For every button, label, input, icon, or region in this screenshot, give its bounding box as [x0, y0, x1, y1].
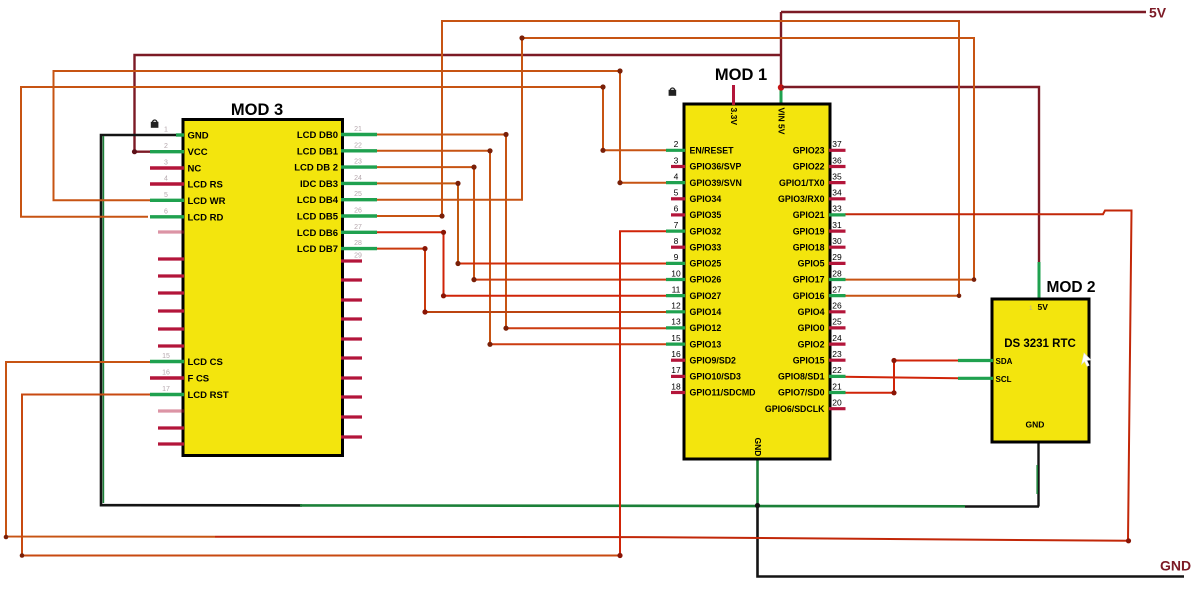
svg-text:GPIO27: GPIO27 [690, 291, 722, 301]
wire IDC DB3 to GPIO25 upper [377, 183, 458, 263]
junction GND bus at MOD1 [755, 503, 760, 508]
MOD3 pin 21 LCD DB0 stub [341, 133, 377, 136]
svg-text:MOD 1: MOD 1 [715, 66, 767, 84]
bend DB1 top [487, 148, 492, 153]
svg-text:GND: GND [1160, 558, 1191, 574]
svg-text:GPIO21: GPIO21 [793, 210, 825, 220]
MOD1 pin 17 GPIO10/SD3 stub [671, 375, 685, 378]
svg-text:26: 26 [354, 208, 362, 215]
wire GND MOD1 green drop [756, 459, 759, 506]
MOD3 pin 29 stub [341, 259, 362, 262]
svg-text:GPIO32: GPIO32 [690, 226, 722, 236]
svg-text:25: 25 [354, 191, 362, 198]
wire GND MOD3 green parallel [102, 136, 104, 503]
wire 5V green tail at VIN 5V pin [780, 87, 783, 105]
MOD1 pin 27 GPIO16 stub [829, 294, 846, 297]
MOD1 pin 2 EN/RESET stub [666, 149, 685, 152]
bend VCC corner [132, 149, 137, 154]
svg-text:37: 37 [832, 139, 842, 149]
MOD1 pin 37 GPIO23 stub [829, 149, 846, 152]
svg-text:22: 22 [832, 365, 842, 375]
MOD1 pin 30 GPIO18 stub [829, 246, 846, 249]
svg-text:1: 1 [1029, 305, 1033, 312]
MOD1 pin 3 GPIO36/SVP stub [671, 165, 685, 168]
svg-text:LCD DB 2: LCD DB 2 [294, 163, 338, 174]
MOD3 unlabeled left stub 2 [158, 257, 184, 260]
svg-text:23: 23 [832, 349, 842, 359]
bend WR corner [617, 68, 622, 73]
svg-text:6: 6 [674, 204, 679, 214]
MOD1 pin 31 GPIO19 stub [829, 230, 846, 233]
svg-text:GPIO12: GPIO12 [690, 323, 722, 333]
svg-text:21: 21 [832, 381, 842, 391]
MOD1 pin 5 GPIO34 stub [671, 197, 685, 200]
MOD1 pin 26 GPIO4 stub [829, 310, 846, 313]
svg-text:GPIO11/SDCMD: GPIO11/SDCMD [690, 388, 756, 398]
svg-text:18: 18 [671, 381, 681, 391]
svg-text:29: 29 [354, 253, 362, 260]
MOD3 pin 24 IDC DB3 stub [341, 182, 377, 185]
MOD1 pin 35 GPIO1/TX0 stub [829, 181, 846, 184]
MOD1 pin 6 GPIO35 stub [671, 213, 685, 216]
svg-text:DS 3231 RTC: DS 3231 RTC [1004, 338, 1076, 350]
MOD1 pin 12 GPIO14 stub [666, 310, 685, 313]
svg-text:24: 24 [354, 175, 362, 182]
wire LCD DB4 to GPIO17 [377, 38, 974, 280]
svg-text:6: 6 [164, 208, 168, 215]
svg-text:GPIO23: GPIO23 [793, 146, 825, 156]
MOD1 pin 4 GPIO39/SVN stub [666, 181, 685, 184]
wire LCD RD to EN/RESET [21, 87, 666, 217]
svg-text:11: 11 [672, 284, 681, 294]
svg-text:GPIO2: GPIO2 [798, 339, 825, 349]
svg-text:10: 10 [671, 268, 681, 278]
svg-text:MOD 3: MOD 3 [231, 101, 283, 119]
MOD1 pin 13 GPIO12 stub [666, 326, 685, 329]
MOD1 pin 34 GPIO3/RX0 stub [829, 197, 846, 200]
MOD1 pin 10 GPIO26 stub [666, 278, 685, 281]
svg-text:9: 9 [674, 252, 679, 262]
svg-text:5V: 5V [1149, 5, 1167, 21]
MOD3 pin 1 GND stub [176, 133, 184, 136]
svg-text:LCD DB0: LCD DB0 [297, 130, 338, 141]
svg-text:26: 26 [832, 301, 842, 311]
MOD3 pin 3 NC stub [150, 166, 184, 169]
svg-text:GPIO18: GPIO18 [793, 242, 825, 252]
svg-text:GPIO17: GPIO17 [793, 275, 825, 285]
MOD1 pin 15 GPIO13 stub [666, 343, 685, 346]
MOD3 pin 15 LCD CS stub [150, 360, 184, 363]
svg-text:GPIO13: GPIO13 [690, 339, 722, 349]
bend CS corner bottom right [1126, 538, 1131, 543]
wire GND black segment to MOD2 [965, 505, 1039, 507]
bend DB5 right corner [957, 294, 962, 299]
svg-text:25: 25 [832, 317, 842, 327]
svg-text:15: 15 [162, 353, 170, 360]
MOD3 unlabeled right stub 1 [341, 278, 362, 281]
svg-text:GPIO8/SD1: GPIO8/SD1 [778, 372, 825, 382]
wire LCD DB2 to GPIO26 upper [377, 167, 474, 280]
bend DB7 top [422, 246, 427, 251]
bend CS corner bottom left [4, 535, 9, 540]
svg-text:GPIO16: GPIO16 [793, 291, 825, 301]
MOD1 pin 8 GPIO33 stub [671, 246, 685, 249]
wire LCD DB5 to GPIO16 [377, 21, 959, 296]
bend DB4 corner [519, 35, 524, 40]
wire 5V branch to MOD 2 [782, 87, 1039, 263]
svg-text:GPIO22: GPIO22 [793, 162, 825, 172]
MOD3 unlabeled right stub 4 [341, 337, 362, 340]
bend DB2 bottom [471, 277, 476, 282]
MOD3 unlabeled left stub 6 [158, 327, 184, 330]
svg-text:GPIO39/SVN: GPIO39/SVN [690, 178, 742, 188]
wire LCD DB6 to GPIO27 [377, 232, 666, 295]
svg-text:GPIO15: GPIO15 [793, 355, 825, 365]
bend DB0 bottom [503, 326, 508, 331]
MOD3 pin 22 LCD DB1 stub [341, 149, 377, 152]
svg-text:3: 3 [674, 155, 679, 165]
junction VIN 5V [778, 84, 784, 90]
MOD1 pin 16 GPIO9/SD2 stub [671, 359, 685, 362]
MOD1 pin 7 GPIO32 stub [666, 230, 685, 233]
svg-text:GPIO6/SDCLK: GPIO6/SDCLK [765, 404, 825, 414]
MOD3 pin 26 LCD DB5 stub [341, 214, 377, 217]
wire LCD WR to GPIO39/SVN [54, 71, 667, 200]
svg-text:LCD RST: LCD RST [188, 390, 229, 401]
MOD1 3.3V pin stub [732, 85, 735, 105]
svg-text:28: 28 [832, 268, 842, 278]
MOD3 unlabeled right stub 6 [341, 376, 362, 379]
svg-text:1: 1 [164, 127, 168, 134]
svg-text:GPIO19: GPIO19 [793, 226, 825, 236]
MOD3 pin 25 LCD DB4 stub [341, 198, 377, 201]
svg-text:GPIO3/RX0: GPIO3/RX0 [778, 194, 825, 204]
svg-text:35: 35 [832, 171, 842, 181]
MOD3 unlabeled right stub 8 [341, 415, 362, 418]
MOD3 unlabeled right stub 3 [341, 317, 362, 320]
svg-text:8: 8 [674, 236, 679, 246]
MOD3 pin 16 F CS stub [150, 376, 184, 379]
bend DB2 top [471, 165, 476, 170]
wire LCD DB1 to GPIO13 upper [377, 151, 490, 344]
MOD1 pin 20 GPIO6/SDCLK stub [829, 407, 846, 410]
svg-text:7: 7 [674, 220, 679, 230]
bend DB0 top [503, 132, 508, 137]
svg-text:3: 3 [164, 160, 168, 167]
svg-text:GPIO35: GPIO35 [690, 210, 722, 220]
svg-text:4: 4 [164, 176, 168, 183]
wire LCD DB7 to GPIO14 upper [377, 249, 425, 312]
svg-text:28: 28 [354, 240, 362, 247]
svg-text:LCD DB4: LCD DB4 [297, 195, 339, 206]
MOD2 SDA pin stub [958, 359, 993, 362]
MOD1 pin 25 GPIO0 stub [829, 326, 846, 329]
svg-text:23: 23 [354, 159, 362, 166]
svg-text:LCD CS: LCD CS [188, 357, 223, 368]
svg-text:F CS: F CS [188, 374, 210, 385]
svg-text:16: 16 [671, 349, 681, 359]
wire LCD RST to GPIO32 right part [620, 231, 666, 555]
wire 5V rail to label [781, 11, 1146, 13]
svg-text:29: 29 [832, 252, 842, 262]
bend SDA top [891, 358, 896, 363]
svg-text:GPIO7/SD0: GPIO7/SD0 [778, 388, 825, 398]
MOD1 pin 11 GPIO27 stub [666, 294, 685, 297]
wire 5V branch to MOD3 VCC [135, 55, 781, 152]
MOD1 pin 22 GPIO8/SD1 stub [829, 375, 846, 378]
MOD3 unlabeled left stub 4 [158, 291, 184, 294]
svg-text:2: 2 [164, 143, 168, 150]
MOD3 unlabeled left stub 10 [158, 442, 184, 445]
wire LCD CS left part [6, 362, 215, 537]
svg-text:16: 16 [162, 370, 170, 377]
svg-text:34: 34 [832, 188, 842, 198]
MOD3 pin 28 LCD DB7 stub [341, 247, 377, 250]
module MOD2 DS3231 RTC box [992, 299, 1089, 442]
svg-text:VCC: VCC [188, 147, 208, 158]
svg-text:MOD 2: MOD 2 [1046, 279, 1095, 296]
svg-text:GPIO5: GPIO5 [798, 259, 825, 269]
wire 5V vertical drop to MOD1 VIN [780, 12, 782, 88]
svg-text:GPIO1/TX0: GPIO1/TX0 [779, 178, 825, 188]
wire GND MOD3 black [101, 135, 302, 505]
wire GND MOD2 green overlay [1036, 465, 1038, 494]
svg-text:LCD DB6: LCD DB6 [297, 228, 338, 239]
bend DB5 junction [439, 213, 444, 218]
svg-text:GPIO10/SD3: GPIO10/SD3 [690, 372, 741, 382]
svg-text:LCD DB7: LCD DB7 [297, 244, 338, 255]
svg-text:LCD DB1: LCD DB1 [297, 146, 339, 157]
svg-text:20: 20 [832, 398, 842, 408]
MOD3 unlabeled left stub 3 [158, 274, 184, 277]
svg-text:33: 33 [832, 204, 842, 214]
svg-text:LCD RS: LCD RS [188, 180, 223, 191]
svg-text:5: 5 [164, 192, 168, 199]
wire LCD DB2 to GPIO26 lower [474, 279, 666, 281]
module MOD1 ESP32 box [684, 104, 830, 459]
MOD2 SCL pin stub [958, 377, 993, 380]
wire GND MOD1 to GND label [758, 506, 1185, 577]
wire LCD CS to GPIO21 right part [215, 211, 1132, 541]
bend SDA bottom [891, 390, 896, 395]
bend DB1 bottom [487, 342, 492, 347]
svg-text:GPIO26: GPIO26 [690, 275, 722, 285]
MOD3 pin 2 VCC stub [150, 150, 184, 153]
svg-text:GPIO9/SD2: GPIO9/SD2 [690, 355, 737, 365]
svg-text:GPIO4: GPIO4 [798, 307, 825, 317]
svg-text:NC: NC [188, 164, 202, 175]
bend DB7 bottom [422, 309, 427, 314]
wire SDA to GPIO7/SD0 [845, 361, 958, 393]
svg-text:2: 2 [674, 139, 679, 149]
svg-text:17: 17 [671, 365, 681, 375]
MOD3 unlabeled left stub 8 [158, 409, 184, 412]
module MOD3 LCD box [183, 120, 343, 456]
MOD3 unlabeled left stub 5 [158, 309, 184, 312]
MOD3 unlabeled right stub 2 [341, 298, 362, 301]
svg-text:VIN 5V: VIN 5V [777, 108, 787, 135]
MOD1 pin 24 GPIO2 stub [829, 343, 846, 346]
bend DB3 top [455, 181, 460, 186]
bend DB3 bottom [455, 261, 460, 266]
bend RD corner [600, 84, 605, 89]
wire GND long green bus [300, 504, 965, 507]
MOD1 pin 18 GPIO11/SDCMD stub [671, 391, 685, 394]
MOD3 pin 6 LCD RD stub [150, 215, 184, 218]
svg-text:24: 24 [832, 333, 842, 343]
svg-text:GPIO0: GPIO0 [798, 323, 825, 333]
svg-text:GND: GND [188, 131, 209, 142]
svg-text:GPIO36/SVP: GPIO36/SVP [690, 162, 742, 172]
bend DB6 bottom [441, 293, 446, 298]
MOD1 pin 28 GPIO17 stub [829, 278, 846, 281]
svg-text:LCD RD: LCD RD [188, 212, 224, 223]
svg-text:GPIO34: GPIO34 [690, 194, 722, 204]
MOD3 unlabeled left stub 7 [158, 344, 184, 347]
svg-text:27: 27 [354, 224, 362, 231]
svg-text:36: 36 [832, 155, 842, 165]
MOD1 pin 23 GPIO15 stub [829, 359, 846, 362]
wire LCD DB1 to GPIO13 lower [490, 343, 666, 345]
MOD1 pin 33 GPIO21 stub [829, 213, 846, 216]
svg-text:LCD DB5: LCD DB5 [297, 212, 339, 223]
bend DB6 top [441, 230, 446, 235]
svg-text:4: 4 [674, 171, 679, 181]
MOD3 pin 23 LCD DB 2 stub [341, 165, 377, 168]
bend WR bottom [617, 180, 622, 185]
svg-text:13: 13 [671, 317, 681, 327]
MOD1 pin 29 GPIO5 stub [829, 262, 846, 265]
MOD1 pin 36 GPIO22 stub [829, 165, 846, 168]
lock icon MOD1 [669, 88, 676, 95]
bend RD bottom [600, 148, 605, 153]
MOD3 pin 27 LCD DB6 stub [341, 231, 377, 234]
svg-text:22: 22 [354, 142, 362, 149]
svg-text:21: 21 [354, 126, 362, 133]
MOD3 pin 4 LCD RS stub [150, 182, 184, 185]
svg-text:5V: 5V [1038, 302, 1049, 312]
svg-text:30: 30 [832, 236, 842, 246]
wire LCD DB0 to GPIO12 upper [377, 135, 506, 329]
svg-text:SCL: SCL [996, 375, 1012, 384]
bend DB4 right corner [972, 277, 977, 282]
svg-text:EN/RESET: EN/RESET [690, 146, 735, 156]
svg-text:GND: GND [1026, 420, 1045, 430]
MOD3 pin 17 LCD RST stub [150, 393, 184, 396]
svg-text:12: 12 [671, 301, 681, 311]
svg-text:5: 5 [674, 188, 679, 198]
svg-text:GPIO25: GPIO25 [690, 259, 722, 269]
wire SCL to GPIO8/SD1 [843, 377, 958, 379]
MOD3 unlabeled right stub 5 [341, 356, 362, 359]
MOD1 pin 9 GPIO25 stub [666, 262, 685, 265]
MOD3 unlabeled left stub 9 [158, 426, 184, 429]
svg-text:IDC DB3: IDC DB3 [300, 179, 338, 190]
svg-text:31: 31 [832, 220, 842, 230]
wire IDC DB3 to GPIO25 lower [458, 263, 666, 265]
svg-text:SDA: SDA [996, 357, 1013, 366]
mouse cursor artifact [1082, 353, 1091, 366]
MOD3 pin 5 LCD WR stub [150, 199, 184, 202]
wire GND MOD2 drop [1037, 442, 1039, 507]
bend RST corner bottom left [20, 553, 25, 558]
MOD3 unlabeled right stub 7 [341, 395, 362, 398]
svg-text:GND: GND [753, 438, 763, 457]
wire 5V green tail at MOD2 5V pin [1038, 262, 1041, 300]
wire LCD RST left part [22, 395, 620, 556]
svg-text:GPIO33: GPIO33 [690, 242, 722, 252]
svg-text:17: 17 [162, 386, 170, 393]
lock icon MOD3 [151, 120, 158, 127]
svg-text:15: 15 [671, 333, 681, 343]
MOD3 unlabeled right stub 9 [341, 435, 362, 438]
bend RST corner [617, 553, 622, 558]
MOD3 unlabeled left stub 1 [158, 230, 184, 233]
MOD1 pin 21 GPIO7/SD0 stub [829, 391, 846, 394]
svg-text:LCD WR: LCD WR [188, 196, 226, 207]
svg-text:27: 27 [832, 284, 842, 294]
wire LCD DB0 to GPIO12 lower [506, 327, 666, 329]
wire LCD DB7 to GPIO14 lower [425, 311, 666, 313]
svg-text:3.3V: 3.3V [729, 108, 739, 126]
svg-text:GPIO14: GPIO14 [690, 307, 722, 317]
